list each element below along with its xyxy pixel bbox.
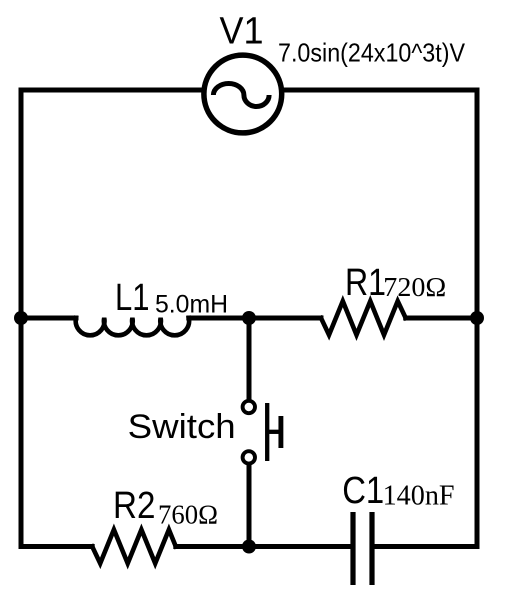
resistor R1: [321, 301, 406, 335]
svg-text:L1: L1: [115, 277, 150, 319]
switch top terminal circle: [243, 401, 255, 413]
inductor L1: [76, 318, 189, 335]
svg-text:Switch: Switch: [128, 408, 236, 446]
svg-text:5.0mH: 5.0mH: [155, 291, 228, 319]
capacitor C1 right plate: [369, 512, 374, 585]
wire bottom-middle (R2 to C1): [176, 544, 351, 549]
switch bottom terminal circle: [243, 451, 255, 463]
svg-text:7.0sin(24x10^3t)V: 7.0sin(24x10^3t)V: [278, 38, 466, 68]
switch actuator button: [278, 416, 283, 448]
junction dot left-middle: [14, 311, 28, 325]
wire middle-center (L1 to R1): [189, 316, 321, 321]
voltage source V1 circle: [204, 55, 282, 133]
wire switch lower lead: [247, 464, 252, 547]
svg-text:720Ω: 720Ω: [383, 272, 446, 302]
wire top-right segment (V1 to right corner): [284, 88, 477, 93]
svg-text:C1: C1: [342, 470, 384, 512]
wire bottom-left (left corner to R2): [21, 544, 92, 549]
svg-text:760Ω: 760Ω: [158, 500, 218, 530]
junction dot bottom-center: [242, 540, 256, 554]
wire top-left segment (left corner to V1): [21, 88, 202, 93]
wire left vertical: [19, 90, 24, 547]
wire bottom-right (C1 to right corner): [373, 544, 477, 549]
svg-text:140nF: 140nF: [383, 480, 455, 511]
svg-text:V1: V1: [220, 11, 264, 53]
wire middle-right (R1 to right rail): [406, 316, 477, 321]
switch contact bar: [265, 403, 269, 461]
wire middle-left (left rail to L1): [21, 316, 76, 321]
junction dot center-middle: [242, 311, 256, 325]
svg-text:R1: R1: [345, 262, 386, 304]
resistor R2: [92, 530, 176, 564]
wire switch upper lead: [247, 318, 252, 400]
switch actuator stem: [267, 430, 281, 434]
junction dot right-middle: [470, 311, 484, 325]
capacitor C1 left plate: [350, 512, 355, 585]
voltage source V1 sine wave: [213, 84, 269, 107]
svg-text:R2: R2: [113, 485, 155, 527]
wire right vertical: [475, 90, 480, 547]
